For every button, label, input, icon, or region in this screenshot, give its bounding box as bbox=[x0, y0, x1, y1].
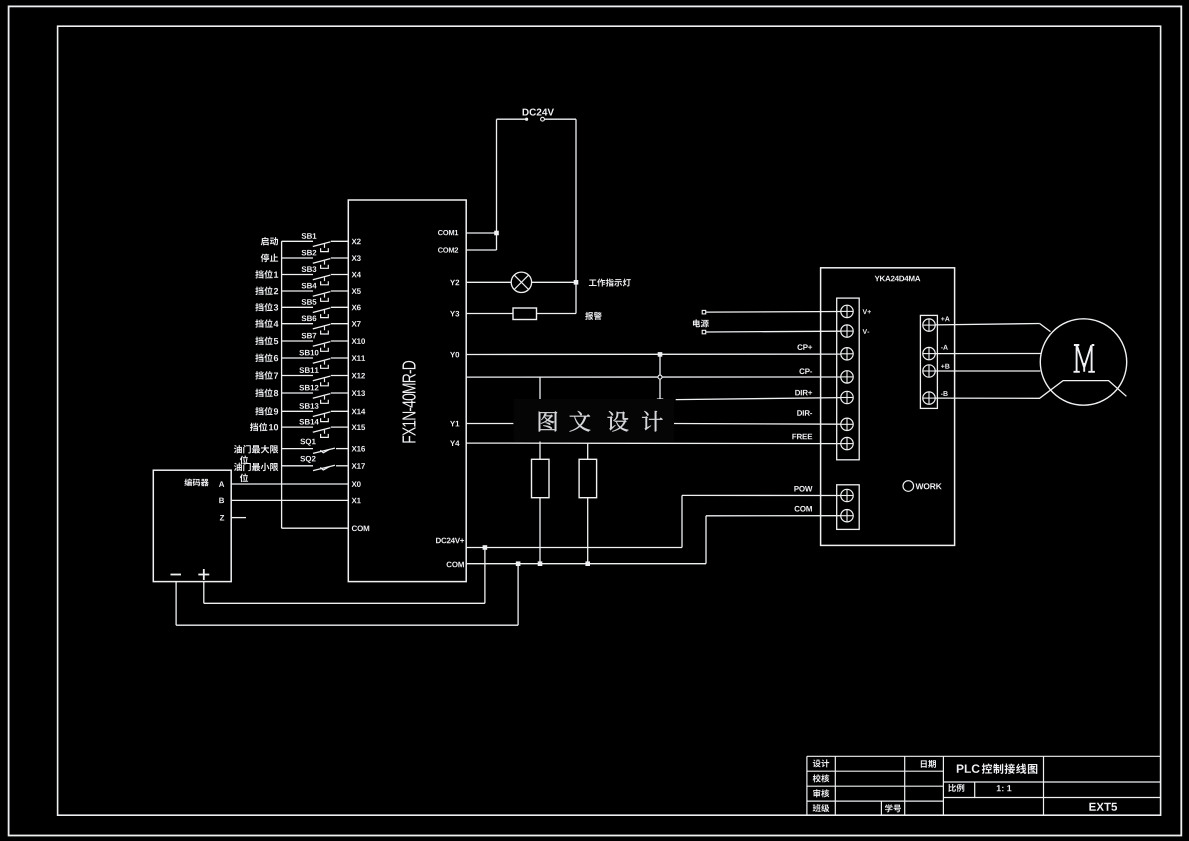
wire DC24V to COM1 bbox=[496, 119, 498, 250]
switch SB11 -> pin X12 bbox=[282, 375, 313, 377]
motor M bbox=[1040, 319, 1126, 405]
terminal V+ bbox=[841, 305, 853, 317]
pin label X15 bbox=[352, 424, 357, 430]
driver motor terminal strip bbox=[920, 315, 937, 408]
label CP+ bbox=[797, 344, 802, 350]
label 挡位7 bbox=[274, 373, 278, 379]
wire COM riser bbox=[705, 516, 707, 564]
wire encoder B to X1 bbox=[231, 499, 348, 501]
pin label COM2 bbox=[438, 247, 443, 252]
pin label X0 bbox=[352, 481, 357, 487]
switch SB1 -> pin X2 bbox=[282, 240, 313, 242]
label 挡位2 bbox=[274, 288, 278, 294]
pin label X11 bbox=[352, 355, 357, 361]
switch SQ1 -> pin X16 bbox=[282, 448, 313, 450]
wire COM line bbox=[466, 563, 706, 565]
pin label X10 bbox=[352, 338, 357, 344]
wire Y3 to alarm bbox=[466, 313, 513, 315]
label POW bbox=[794, 486, 799, 492]
pin label X17 bbox=[352, 463, 357, 469]
pin label Y3 bbox=[450, 311, 455, 317]
wire lamp to bus bbox=[532, 281, 576, 283]
label 启动 bbox=[261, 237, 269, 245]
WORK indicator bbox=[903, 481, 914, 492]
switch SB10 -> pin X11 bbox=[282, 357, 313, 359]
terminal V- bbox=[841, 325, 853, 337]
lamp HL 工作指示灯 bbox=[511, 272, 531, 292]
terminal DIR- bbox=[841, 418, 853, 430]
label 停止 bbox=[261, 254, 270, 263]
label 挡位1 bbox=[274, 272, 278, 278]
wire Y1 to DIR- right bbox=[674, 423, 841, 426]
pin label X2 bbox=[352, 239, 357, 245]
wire supply to V- bbox=[706, 330, 841, 333]
label FREE bbox=[792, 434, 796, 440]
wire alarm to bus bbox=[537, 313, 577, 315]
label 挡位9 bbox=[274, 408, 278, 414]
switch SB4 -> pin X5 bbox=[282, 290, 313, 292]
DC24V label bbox=[523, 109, 529, 116]
pin label COM input bbox=[352, 526, 357, 532]
wire +A to motor bbox=[935, 324, 1039, 325]
terminal +A bbox=[923, 319, 935, 331]
title 比例 bbox=[948, 784, 956, 792]
label 油门最大限位 bbox=[234, 445, 242, 453]
switch SB5 -> pin X6 bbox=[282, 306, 313, 308]
label 挡位5 bbox=[274, 338, 278, 344]
label 挡位4 bbox=[274, 321, 279, 327]
terminal -A bbox=[923, 347, 935, 359]
label 油门最小限位 bbox=[234, 463, 242, 471]
encoder 编码器 bbox=[153, 470, 231, 581]
title EXT5 bbox=[1089, 803, 1095, 811]
junction COM encoder branch bbox=[516, 561, 521, 566]
junction R2 bottom bbox=[585, 561, 590, 566]
wire encoder plus to DC24V+ bbox=[203, 582, 205, 604]
junction Y0 branch bbox=[658, 352, 663, 357]
driver signal terminal strip bbox=[837, 298, 860, 460]
pin label X13 bbox=[352, 390, 357, 396]
pin label X16 bbox=[352, 446, 357, 452]
alarm resistor 报警 bbox=[513, 308, 537, 320]
title 校核 bbox=[813, 774, 821, 782]
wire -B to motor bbox=[935, 381, 1126, 399]
label 挡位8 bbox=[274, 390, 278, 396]
label V- bbox=[863, 329, 868, 334]
wire encoder A to X0 bbox=[231, 483, 348, 485]
title 班级 bbox=[813, 804, 821, 812]
terminal +B bbox=[923, 365, 935, 377]
label COM bbox=[795, 506, 800, 512]
wire to COM driver bbox=[706, 515, 841, 517]
label 挡位10 bbox=[269, 424, 273, 430]
junction COM1 bbox=[494, 231, 499, 236]
wire Y2 to lamp bbox=[466, 281, 511, 283]
wire Y0 branch vertical bbox=[659, 354, 661, 399]
terminal CP- bbox=[841, 371, 853, 383]
label 电源 bbox=[693, 319, 700, 327]
pin label X6 bbox=[352, 305, 357, 311]
switch SQ2 -> pin X17 bbox=[282, 465, 313, 467]
pin label COM output bbox=[447, 562, 452, 568]
terminal -B bbox=[923, 392, 935, 404]
label 挡位6 bbox=[274, 355, 278, 361]
pin COM1 wire bbox=[466, 232, 496, 234]
watermark 图文设计 bbox=[514, 399, 674, 442]
label V+ bbox=[863, 309, 868, 314]
resistor R2 bbox=[587, 443, 589, 459]
switch SB3 -> pin X4 bbox=[282, 274, 313, 276]
pin label Y0 bbox=[450, 352, 455, 358]
pin label X14 bbox=[352, 409, 357, 415]
driver power terminal strip bbox=[837, 485, 860, 530]
switch SB12 -> pin X13 bbox=[282, 392, 313, 394]
title scale 1:1 bbox=[997, 785, 1001, 791]
crossing hop bbox=[658, 375, 662, 379]
label +B bbox=[941, 364, 945, 368]
title 日期 bbox=[921, 760, 927, 767]
pin label Y4 bbox=[450, 440, 455, 446]
junction DC24V+ branch bbox=[483, 545, 488, 550]
title block bbox=[807, 755, 1161, 757]
input COM bus wire bbox=[281, 241, 283, 528]
wire to POW bbox=[682, 494, 841, 496]
PLC U1 FX1N-40MR-D bbox=[348, 200, 466, 582]
title 学号 bbox=[885, 804, 893, 812]
pin label X1 bbox=[352, 498, 357, 504]
label +A bbox=[941, 317, 945, 321]
junction lamp bbox=[574, 280, 579, 285]
encoder pin A bbox=[219, 481, 224, 487]
pin label Y1 bbox=[450, 421, 455, 427]
wire DC24V+ line bbox=[466, 547, 682, 549]
pin label COM1 bbox=[438, 230, 443, 235]
wire Z stub bbox=[231, 517, 246, 519]
wire supply to V+ bbox=[706, 311, 841, 314]
label 挡位3 bbox=[274, 304, 278, 310]
wire Y4 to FREE bbox=[466, 442, 841, 445]
resistor R1 bbox=[539, 377, 541, 459]
switch SB13 -> pin X14 bbox=[282, 410, 313, 412]
label -A bbox=[941, 346, 943, 349]
supply terminal bottom bbox=[702, 330, 706, 334]
wire DIR+ line bbox=[676, 398, 841, 400]
wire encoder minus to COM bbox=[175, 582, 177, 626]
wire Y1 to DIR- left bbox=[466, 423, 513, 425]
switch SB14 -> pin X15 bbox=[282, 426, 313, 428]
junction R1 bottom bbox=[538, 561, 543, 566]
terminal CP+ bbox=[841, 348, 853, 360]
label 报警 bbox=[585, 312, 593, 320]
encoder minus terminal bbox=[171, 574, 182, 576]
wire DC24V right drop bbox=[575, 119, 577, 313]
encoder pin Z bbox=[220, 515, 224, 521]
pin COM2 wire bbox=[466, 249, 496, 251]
switch SB2 -> pin X3 bbox=[282, 257, 313, 259]
wire POW riser bbox=[681, 495, 683, 547]
wire +B to motor bbox=[935, 370, 1040, 372]
switch SB6 -> pin X7 bbox=[282, 323, 313, 325]
pin label DC24V+ bbox=[436, 538, 441, 544]
label DIR- bbox=[797, 410, 802, 416]
pin label X12 bbox=[352, 373, 357, 379]
label 工作指示灯 bbox=[589, 279, 597, 286]
switch SB7 -> pin X10 bbox=[282, 340, 313, 342]
label DIR+ bbox=[795, 390, 800, 396]
terminal COM bbox=[841, 510, 853, 522]
label CP- bbox=[799, 368, 804, 374]
title 设计 bbox=[813, 759, 821, 767]
encoder plus terminal bbox=[198, 574, 209, 576]
pin label X7 bbox=[352, 321, 357, 327]
encoder pin B bbox=[219, 498, 224, 504]
DC24V feed wire right bbox=[541, 117, 545, 121]
pin label Y2 bbox=[450, 280, 455, 286]
pin label X3 bbox=[352, 255, 357, 261]
pin label X4 bbox=[352, 272, 357, 278]
pin label X5 bbox=[352, 288, 357, 294]
terminal DIR+ bbox=[841, 391, 853, 403]
wire Y0 to CP+ bbox=[466, 353, 841, 355]
title PLC控制接线图 bbox=[957, 765, 964, 773]
driver U2 YKA24D4MA bbox=[821, 268, 955, 546]
terminal POW bbox=[841, 489, 853, 501]
label -B bbox=[941, 393, 943, 396]
terminal FREE bbox=[841, 437, 853, 449]
supply terminal top bbox=[702, 310, 706, 314]
DC24V feed wire left bbox=[497, 118, 526, 120]
wire -A to motor bbox=[935, 353, 1041, 355]
title 审核 bbox=[813, 789, 820, 797]
wire CP- line bbox=[466, 376, 841, 378]
